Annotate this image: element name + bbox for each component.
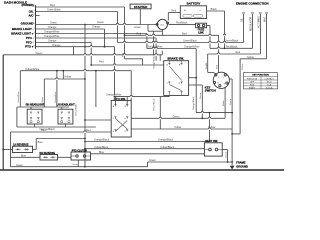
wire LH reverse left: [3, 148, 12, 150]
junction key mid: [231, 112, 233, 114]
wire key switch feed left: [208, 72, 216, 74]
table KEY FUNCTION frame: [244, 73, 278, 89]
wire solenoid bottom to red bus: [161, 30, 163, 36]
lamp RH HEADLIGHT label: [26, 103, 45, 106]
svg-text:Green: Green: [229, 98, 232, 105]
svg-text:FRAME: FRAME: [236, 161, 245, 165]
svg-text:GROUND: GROUND: [21, 21, 34, 25]
label Yellow/Black rot: [153, 98, 155, 111]
svg-text:Green/Black: Green/Black: [47, 9, 62, 12]
svg-text:B+S+A: B+S+A: [266, 86, 273, 89]
svg-text:PTO -: PTO -: [26, 36, 34, 40]
label Yellow rot hl2: [42, 97, 44, 103]
svg-text:BRAKE LIGHT +: BRAKE LIGHT +: [11, 31, 34, 35]
junction pto left: [84, 119, 86, 121]
svg-text:MAG: MAG: [264, 17, 267, 22]
pto sw top stubs: [115, 97, 127, 105]
svg-text:Orange: Orange: [48, 40, 57, 43]
seat sw contacts: [204, 148, 222, 151]
label Yellow engine: [247, 56, 254, 59]
connector J1 DASH MODULE title: [4, 0, 34, 7]
wire brake sw right mid: [189, 77, 197, 79]
engine pin ticks: [243, 12, 268, 14]
junction brake right: [195, 77, 197, 79]
svg-text:Orange/Black: Orange/Black: [192, 96, 195, 110]
solenoid terminal left: [156, 23, 158, 25]
svg-text:Yellow/White: Yellow/White: [25, 68, 40, 71]
svg-text:ENGINE CONNECTION: ENGINE CONNECTION: [236, 2, 269, 6]
label Orange/White mid: [147, 46, 163, 49]
wire Green bus jog: [147, 162, 149, 167]
connector J1 pin numbers: [33, 4, 35, 47]
svg-text:Green/Black: Green/Black: [225, 40, 240, 43]
junction orange pto: [104, 46, 106, 48]
wire long left vertical: [84, 25, 86, 167]
svg-text:Green: Green: [50, 22, 58, 25]
svg-text:Green: Green: [73, 163, 80, 166]
wire Green bus bottom left: [11, 166, 148, 168]
label Red/B rot: [206, 62, 208, 69]
wire RH reverse left Blue: [11, 132, 41, 167]
label Red batt: [172, 10, 177, 13]
LH headlight pads: [61, 121, 70, 123]
wire pto sw left mid: [85, 119, 111, 121]
svg-text:Yellow: Yellow: [42, 97, 44, 103]
label Red engine: [236, 51, 241, 54]
svg-text:Red: Red: [137, 33, 142, 36]
svg-text:Yellow/White: Yellow/White: [17, 91, 20, 103]
lamp LH HEADLIGHT box: [58, 109, 73, 124]
label Green/Black: [47, 9, 62, 12]
table header: [252, 75, 269, 77]
svg-text:Orange: Orange: [48, 26, 57, 29]
svg-text:Red: Red: [236, 51, 241, 54]
svg-text:Red: Red: [50, 4, 55, 7]
label Yellow left: [64, 75, 71, 78]
wire orange/black up: [209, 113, 211, 142]
wire Orange dash PTO+: [36, 47, 115, 96]
svg-text:Orange/White: Orange/White: [44, 31, 60, 34]
junction frame ground: [231, 161, 233, 163]
wire Green bus left side: [2, 55, 4, 170]
svg-text:Orange/Black: Orange/Black: [94, 139, 110, 142]
svg-text:Yellow: Yellow: [247, 56, 254, 59]
svg-text:(POWER): (POWER): [22, 3, 34, 7]
wire Green pto right: [131, 117, 225, 119]
wire Green dash GROUND: [36, 24, 158, 26]
wire Red main bus: [125, 35, 219, 72]
wire Orange/Black bottom: [85, 141, 210, 143]
label Yellow/White: [25, 68, 40, 71]
svg-text:Blue: Blue: [21, 155, 27, 158]
svg-text:Green: Green: [173, 116, 181, 119]
svg-text:Green: Green: [199, 92, 202, 99]
border bottom: [0, 169, 284, 171]
wire brake bottom pin to pto bus: [168, 95, 170, 96]
svg-text:BRAKE SW.: BRAKE SW.: [168, 57, 185, 61]
svg-text:Black: Black: [211, 8, 218, 11]
junction red mid: [90, 64, 92, 66]
junction pto top: [114, 96, 116, 98]
engine connection title: [236, 2, 269, 6]
svg-text:Red: Red: [41, 129, 46, 132]
wire Black battery negative: [207, 11, 225, 48]
svg-text:Orange/White: Orange/White: [184, 46, 200, 49]
label Red bus: [182, 33, 187, 36]
battery BT1: [180, 6, 206, 19]
svg-text:6: 6: [34, 14, 35, 16]
svg-text:Yellow: Yellow: [174, 126, 181, 129]
junction yellow/black: [84, 148, 86, 150]
brake sw contact arm 2: [169, 85, 181, 91]
svg-text:Green: Green: [36, 52, 44, 55]
svg-text:White: White: [222, 100, 225, 106]
svg-text:START: START: [249, 86, 256, 89]
svg-text:Red: Red: [172, 10, 177, 13]
RH headlight terminals: [30, 112, 39, 119]
switch S5 RH REVERSE label: [40, 152, 56, 155]
label Green bus: [36, 52, 44, 55]
svg-text:2: 2: [34, 36, 35, 38]
svg-text:Yellow/Black: Yellow/Black: [153, 98, 155, 111]
label Orange/Black b2: [158, 139, 174, 142]
junction red bus: [124, 34, 126, 36]
switch S2 KEY SWITCH circle: [213, 72, 229, 88]
wire orange/white down right: [195, 78, 197, 113]
svg-text:Red: Red: [99, 61, 104, 64]
svg-text:Yellow/Black: Yellow/Black: [160, 146, 175, 149]
wire Yellow: [44, 71, 85, 79]
wire Green/Black dash OIL to engine: [36, 12, 244, 43]
svg-text:4: 4: [34, 27, 35, 29]
wire to brake box left: [160, 51, 162, 61]
svg-text:Green: Green: [149, 159, 157, 162]
RH reverse diodes: [43, 156, 56, 158]
svg-text:Yellow/Black: Yellow/Black: [94, 146, 109, 149]
label Yellow rot: [242, 63, 244, 70]
label Green clutch: [73, 163, 80, 166]
table lines: [244, 77, 278, 89]
wire headlight feeds: [44, 71, 96, 107]
svg-text:FUNCTION: FUNCTION: [247, 78, 258, 80]
junction clutch gnd: [84, 166, 86, 168]
svg-text:GROUND: GROUND: [236, 165, 248, 169]
wire Red pto bottom left: [11, 131, 112, 133]
svg-text:5: 5: [34, 23, 35, 25]
label Red/Black: [176, 22, 188, 25]
clutch L1 PTO CLUTCH label: [72, 149, 88, 152]
svg-text:Red: Red: [86, 129, 91, 132]
battery polarity: [184, 8, 202, 12]
label Orange c: [52, 44, 61, 47]
svg-text:Green: Green: [225, 151, 228, 158]
relay K1 solenoid: [157, 19, 167, 29]
wire RH reverse right: [58, 156, 72, 158]
wire Red/Black solenoid to fuse: [169, 23, 196, 25]
battery cell left: [183, 15, 192, 18]
wire Green bus top: [3, 54, 162, 56]
label Orange b: [48, 40, 57, 43]
wire brake sw right lower: [189, 85, 203, 118]
svg-text:Yellow/White: Yellow/White: [75, 103, 78, 116]
label Blue rh: [21, 155, 27, 158]
label Orange 2: [92, 26, 101, 29]
junction yw1: [56, 70, 97, 72]
junction green vert pto: [84, 46, 86, 48]
battery label: [187, 2, 201, 6]
svg-text:M+G: M+G: [267, 81, 272, 83]
label Yellow/Black b1: [94, 146, 109, 149]
junction green pto: [201, 117, 203, 119]
svg-text:B+A: B+A: [267, 83, 272, 86]
wire headlight bottom bus: [17, 124, 96, 127]
junction seat gnd: [227, 161, 229, 163]
key switch label: [205, 86, 216, 93]
svg-text:Yellow/White: Yellow/White: [54, 91, 57, 103]
label Blue lh: [38, 141, 44, 144]
label Orange/White vert2: [153, 55, 156, 69]
connector J1 pin labels: [11, 9, 34, 48]
junction black to redblack: [224, 47, 226, 49]
brake sw pin stubs: [169, 61, 181, 96]
label Yellow/White rot hl1: [17, 91, 20, 103]
label Green bottom: [16, 164, 24, 167]
ground symbol: [230, 162, 235, 169]
label Orange/White: [44, 31, 60, 34]
pto sw pin letters: [113, 105, 127, 133]
svg-text:Orange/Black: Orange/Black: [158, 139, 174, 142]
clutch terminals: [71, 155, 91, 157]
label Red bottom2: [86, 129, 91, 132]
label Green starter: [134, 26, 142, 29]
clutch L1 PTO CLUTCH box: [71, 152, 91, 160]
label Red mid: [99, 61, 104, 64]
wire pto right link: [159, 97, 161, 129]
svg-text:AC/TIMING: AC/TIMING: [258, 16, 261, 28]
wire Orange/White dash PTO-: [36, 38, 157, 61]
svg-text:Orange: Orange: [52, 44, 61, 47]
label White key vert: [222, 100, 225, 106]
brake sw contact arm 1: [169, 66, 181, 80]
svg-text:Green/Black: Green/Black: [183, 40, 198, 43]
pto sw terminals: [114, 105, 128, 132]
switch S5 RH REVERSE box: [40, 155, 58, 161]
switch S1 BRAKE SW box: [164, 61, 189, 96]
switch S1 BRAKE SW label: [168, 57, 185, 61]
wire solenoid aux: [148, 24, 162, 54]
label Orange/White b: [44, 35, 60, 38]
wire key sw right out: [229, 79, 232, 162]
svg-text:Yellow: Yellow: [242, 63, 244, 70]
wire solenoid to battery +: [168, 13, 180, 21]
svg-text:Orange/White: Orange/White: [153, 55, 156, 69]
svg-text:+: +: [184, 8, 186, 12]
svg-text:PTO +: PTO +: [25, 45, 34, 49]
wire Red/Black to regulator: [210, 47, 253, 49]
switch S6 SEAT SW label: [205, 139, 218, 143]
wire Orange/White pto top: [115, 96, 170, 98]
svg-text:Orange: Orange: [92, 26, 101, 29]
wire mag bottom link: [232, 133, 240, 135]
switch S3 PTO SW label: [114, 97, 126, 101]
label Green/Black mid: [183, 40, 198, 43]
stub dash pin A/C: [36, 15, 40, 17]
label Red: [50, 4, 55, 7]
switch S4 LH REVERSE box: [13, 146, 33, 152]
label Yellow/Black b2: [160, 146, 175, 149]
solenoid terminal right: [167, 22, 169, 24]
svg-text:REGULATOR: REGULATOR: [250, 17, 253, 31]
svg-text:RH HEADLIGHT: RH HEADLIGHT: [26, 103, 45, 106]
wire clutch ground Green: [77, 160, 79, 167]
table row labels: [247, 77, 275, 89]
wire short link: [73, 47, 75, 55]
svg-text:STARTER: STARTER: [134, 5, 148, 9]
svg-text:Yellow: Yellow: [64, 75, 71, 78]
switch S6 SEAT SW box: [204, 143, 222, 156]
label Red starter: [137, 33, 142, 36]
wire key sw bottom out: [224, 88, 226, 118]
label Orange/White pto: [106, 93, 122, 96]
label Green vert: [199, 92, 202, 99]
brake sw terminals: [168, 63, 183, 93]
wire seat sw right: [222, 150, 227, 163]
wire Yellow pto bottom right: [131, 128, 232, 130]
svg-text:Blue: Blue: [99, 151, 105, 154]
label Green pto: [173, 116, 181, 119]
wire Orange dash BRAKE-: [36, 29, 105, 47]
label Green bottom right: [149, 159, 157, 162]
brake sw pin letters: [166, 63, 180, 85]
junction orange/black: [84, 141, 86, 143]
label Orange: [48, 26, 57, 29]
engine pin MAG: [264, 14, 267, 59]
label Orange/Black b1: [94, 139, 110, 142]
connector J1 body: [35, 5, 37, 48]
wire Yellow/White: [20, 71, 131, 107]
wire headlight top bus: [17, 107, 69, 127]
key switch terminal letters: [217, 77, 225, 85]
wire hops: [56, 23, 226, 133]
svg-text:1: 1: [34, 41, 35, 43]
fuse label: [198, 29, 205, 35]
svg-text:RUN: RUN: [250, 84, 255, 86]
label Green: [50, 22, 58, 25]
svg-text:Red/Black: Red/Black: [226, 46, 238, 49]
junction mag bottom: [231, 133, 233, 135]
engine pin REGULATOR: [250, 14, 253, 49]
label Green seat: [225, 151, 228, 158]
label Red rotated: [122, 52, 124, 57]
wire Blue bottom: [91, 153, 205, 155]
LH headlight terminals: [61, 112, 70, 119]
fuse F1 FUSE LINK: [196, 23, 207, 28]
label Orange/White mid2: [184, 46, 200, 49]
LH reverse diodes: [15, 148, 29, 150]
svg-text:CONTACT: CONTACT: [264, 77, 274, 80]
svg-text:BRAKE LIGHT -: BRAKE LIGHT -: [12, 27, 34, 31]
svg-text:8: 8: [34, 45, 35, 47]
junction green/ground: [84, 24, 86, 26]
lamp LH HEADLIGHT label: [57, 103, 76, 106]
svg-text:Green: Green: [16, 164, 24, 167]
engine pin OIL: [242, 14, 244, 43]
svg-text:Red/B: Red/B: [206, 62, 208, 69]
wire key mid link: [196, 112, 232, 114]
svg-text:LH HEADLIGHT: LH HEADLIGHT: [57, 103, 76, 106]
svg-text:SWITCH: SWITCH: [205, 89, 216, 93]
junction blue: [84, 138, 86, 140]
engine pin AC/TIMING: [258, 14, 261, 55]
junction ob: [209, 112, 211, 114]
pto sw contact arms: [115, 119, 127, 132]
svg-text:Red/Black: Red/Black: [176, 22, 188, 25]
wire Red to AC: [208, 54, 261, 72]
junction left vert: [84, 78, 86, 80]
junction lh rev: [2, 149, 4, 151]
label Blue bottom: [99, 151, 105, 154]
svg-text:Red: Red: [182, 33, 187, 36]
label Black: [211, 8, 218, 11]
wire LH reverse right Blue: [33, 139, 86, 150]
wire Red dash pin A: [36, 7, 143, 65]
label Red bottom: [41, 129, 46, 132]
svg-text:LINK: LINK: [198, 31, 204, 34]
label Orange/Black headlight: [40, 128, 56, 131]
label Green key vert: [229, 98, 232, 105]
label Red rot: [217, 64, 219, 69]
label Yellow pto: [174, 126, 181, 129]
motor M1 STARTER: [130, 4, 151, 9]
frame ground label: [236, 161, 248, 169]
label Orange/White vert: [192, 96, 195, 110]
wire Red to brake C: [91, 64, 164, 66]
wire Orange/White dash BRAKE+ to brake sw: [36, 34, 197, 78]
battery cell right: [194, 15, 203, 18]
svg-text:Orange/White: Orange/White: [44, 35, 60, 38]
label Yellow/White rot hl3: [54, 91, 57, 103]
switch S3 PTO SW box: [111, 101, 131, 138]
svg-text:Blue: Blue: [38, 141, 44, 144]
wire key switch feed right: [218, 71, 220, 74]
key switch terminals: [213, 74, 228, 87]
label Red/Black engine: [226, 46, 238, 49]
svg-text:Green: Green: [134, 26, 142, 29]
svg-text:Orange/White: Orange/White: [106, 93, 122, 96]
label Yellow pto2: [208, 126, 215, 129]
label Green 2: [97, 21, 105, 24]
switch S4 LH REVERSE label: [13, 144, 29, 147]
RH headlight pads: [30, 121, 39, 123]
wire Orange dash pin7: [36, 43, 92, 66]
wire fuse out: [207, 26, 210, 49]
label Green/Black engine: [225, 40, 240, 43]
wire Green bus bottom right: [148, 161, 233, 163]
svg-text:Green: Green: [97, 21, 105, 24]
svg-text:BATTERY: BATTERY: [187, 2, 201, 6]
wire Yellow/Black bottom: [85, 148, 204, 150]
label Yellow/White rot pto: [75, 103, 78, 116]
wire starter lead: [139, 9, 141, 25]
svg-text:3: 3: [34, 32, 35, 34]
lamp RH HEADLIGHT box: [27, 109, 42, 124]
svg-text:1: 1: [34, 10, 35, 12]
wire Yellow to MAG: [240, 59, 266, 134]
